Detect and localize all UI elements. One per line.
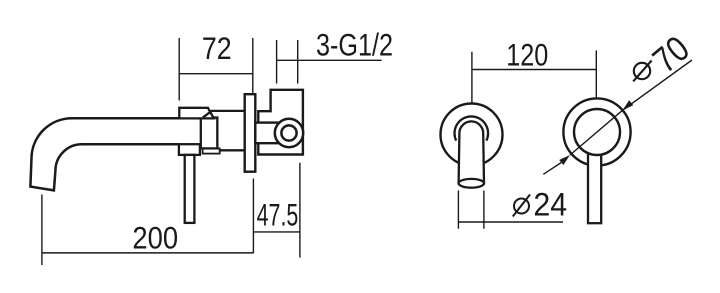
right escutcheon inner circle [574, 109, 620, 155]
dim 47.5: dimension line [253, 231, 300, 233]
label 70 (rotated) [646, 29, 698, 81]
dim ⌀70: upper arrowhead [623, 100, 634, 110]
spout (side view, curved tube) [30, 118, 180, 190]
chamfer line overlay [203, 111, 212, 118]
dim ⌀70: diameter line [570, 110, 623, 155]
svg-text:47.5: 47.5 [257, 197, 299, 232]
body right section with chamfer [203, 111, 245, 150]
dim ⌀70: lower arrowhead [559, 155, 570, 165]
spout tube bottom ellipse [459, 179, 484, 188]
dim 72: dimension line [179, 73, 253, 75]
dim 200: left extension line [41, 195, 43, 266]
cap piece on top [179, 108, 214, 119]
in-wall body (L-shape) [258, 90, 303, 155]
left escutcheon circle (front view) [441, 104, 503, 166]
handle collar [179, 144, 200, 155]
svg-text:72: 72 [202, 32, 232, 66]
connection inner circle [281, 125, 296, 140]
svg-text:70: 70 [646, 29, 698, 81]
handle rod [185, 155, 195, 223]
label ⌀70 symbol [633, 61, 651, 82]
supply tube behind plate [255, 123, 285, 144]
spout tube (front view, pointing down) [459, 121, 484, 183]
dim 72: extension lines [179, 38, 253, 101]
dim 3-G1/2: leader line [277, 59, 382, 61]
dim 120: extension lines [472, 51, 596, 117]
dim 3-G1/2: extension lines [277, 40, 298, 84]
dim 120: dimension line [472, 69, 596, 71]
dim ⌀70: leader line [623, 60, 693, 110]
dim 47.5: extension lines [253, 163, 300, 258]
connection outer circle [275, 119, 303, 147]
dim 200: dimension line [42, 252, 254, 254]
dim ⌀24: extension lines [458, 191, 484, 229]
svg-text:200: 200 [132, 221, 178, 256]
dim ⌀24: dimension line [458, 221, 563, 223]
svg-text:3-G1/2: 3-G1/2 [316, 28, 393, 63]
svg-text:24: 24 [533, 187, 567, 223]
wall plate (escutcheon, side) [245, 94, 256, 172]
right escutcheon outer circle [563, 98, 630, 165]
flange arc on left fixture [455, 116, 489, 140]
svg-text:120: 120 [506, 38, 548, 73]
handle lever rod (front view) [588, 132, 601, 223]
dim ⌀70: tail line [543, 163, 561, 175]
mid band (cartridge section) [201, 118, 218, 149]
label ⌀24 symbol [513, 195, 530, 217]
nut step under body [203, 148, 220, 153]
